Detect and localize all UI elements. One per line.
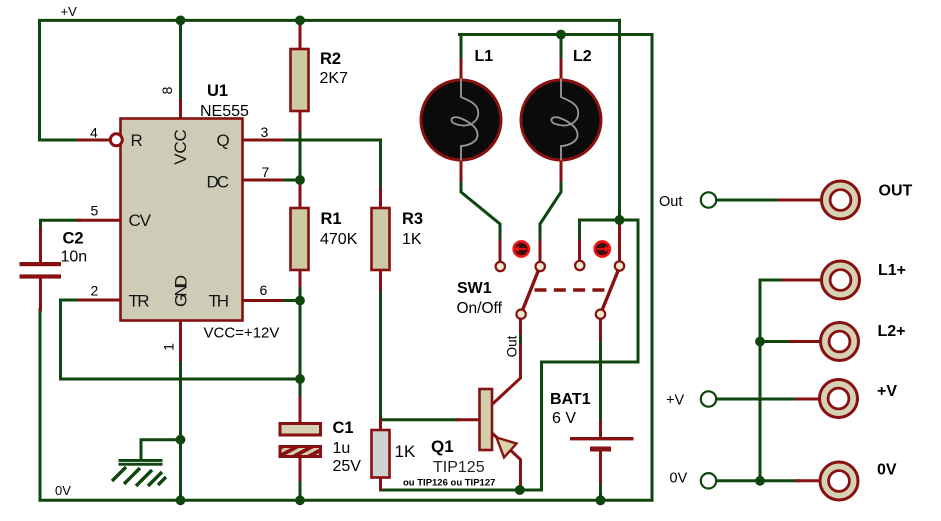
svg-text:C1: C1 <box>333 419 354 437</box>
svg-text:8: 8 <box>159 86 175 94</box>
svg-text:1: 1 <box>161 343 177 351</box>
svg-text:R: R <box>131 131 143 150</box>
svg-text:3: 3 <box>261 124 269 140</box>
svg-text:OUT: OUT <box>879 182 913 199</box>
svg-text:R1: R1 <box>321 210 342 228</box>
svg-text:5: 5 <box>91 203 99 219</box>
svg-text:470K: 470K <box>320 231 358 248</box>
svg-text:Out: Out <box>659 194 682 210</box>
svg-text:TH: TH <box>209 292 230 311</box>
svg-text:1u: 1u <box>333 440 351 457</box>
svg-text:L1: L1 <box>475 48 494 65</box>
svg-text:On/Off: On/Off <box>457 300 503 317</box>
svg-text:Q1: Q1 <box>431 437 454 456</box>
svg-text:SW1: SW1 <box>457 280 492 297</box>
svg-text:U1: U1 <box>207 82 228 100</box>
svg-text:L2: L2 <box>573 48 592 65</box>
svg-text:DC: DC <box>207 172 230 191</box>
svg-text:1K: 1K <box>402 231 422 248</box>
svg-text:0V: 0V <box>55 483 71 498</box>
svg-text:C2: C2 <box>63 230 84 248</box>
svg-text:0V: 0V <box>877 462 897 479</box>
svg-text:25V: 25V <box>333 458 362 475</box>
svg-text:VCC: VCC <box>171 129 190 165</box>
svg-text:Q: Q <box>217 131 230 150</box>
svg-text:TR: TR <box>129 292 150 311</box>
svg-text:10n: 10n <box>61 249 88 266</box>
svg-text:2K7: 2K7 <box>320 70 349 87</box>
svg-text:1K: 1K <box>395 442 416 461</box>
svg-text:+V: +V <box>666 393 684 409</box>
svg-text:CV: CV <box>129 211 152 230</box>
svg-text:GND: GND <box>172 275 191 307</box>
svg-text:0V: 0V <box>670 471 688 487</box>
svg-text:VCC=+12V: VCC=+12V <box>204 325 280 342</box>
svg-text:Out: Out <box>505 335 520 357</box>
svg-text:2: 2 <box>91 283 99 299</box>
svg-text:R2: R2 <box>320 50 341 68</box>
svg-text:BAT1: BAT1 <box>550 391 591 408</box>
svg-text:R3: R3 <box>402 210 423 228</box>
svg-text:6: 6 <box>260 282 268 298</box>
svg-text:+V: +V <box>61 4 78 19</box>
svg-text:7: 7 <box>262 164 270 180</box>
svg-text:ou TIP126 ou TIP127: ou TIP126 ou TIP127 <box>403 478 495 489</box>
svg-text:6 V: 6 V <box>552 410 576 427</box>
svg-text:L1+: L1+ <box>878 262 906 279</box>
svg-text:+V: +V <box>877 383 897 400</box>
svg-text:4: 4 <box>90 124 98 140</box>
svg-text:TIP125: TIP125 <box>433 459 485 476</box>
svg-text:NE555: NE555 <box>200 103 249 120</box>
svg-text:L2+: L2+ <box>878 323 906 340</box>
